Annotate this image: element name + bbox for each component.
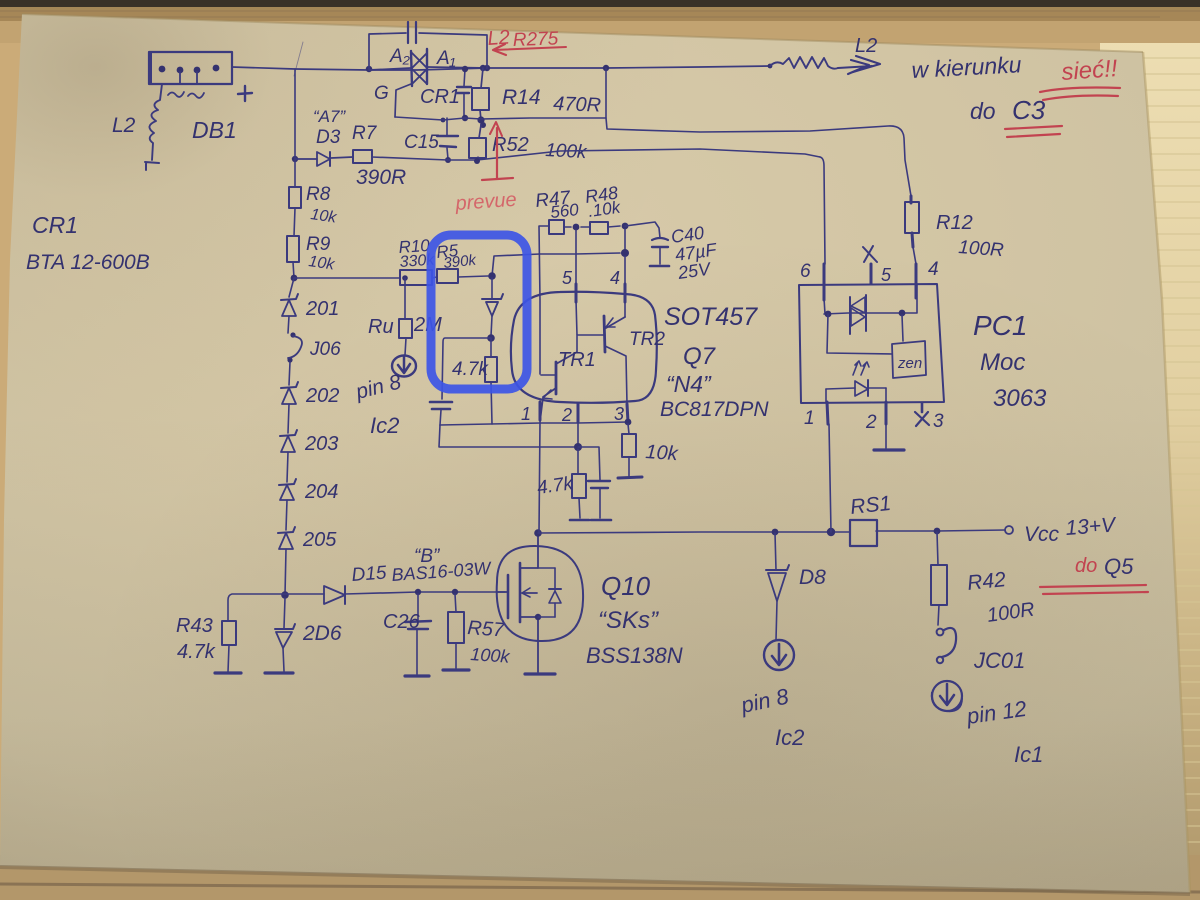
node rail-triac-left — [366, 66, 372, 72]
node R9-R10 — [291, 275, 298, 282]
red underline do Q5 — [1040, 585, 1146, 587]
capacitor C40 — [625, 222, 660, 238]
svg-text:L2: L2 — [112, 114, 136, 137]
svg-text:do: do — [1075, 555, 1097, 577]
svg-text:1: 1 — [521, 404, 531, 424]
svg-text:4.7k: 4.7k — [452, 359, 489, 380]
triac CR1 — [411, 51, 412, 86]
ground R57 — [443, 668, 469, 671]
resistor 4.7k at pin2 — [577, 449, 579, 474]
svg-text:R42: R42 — [966, 568, 1007, 595]
svg-text:3063: 3063 — [993, 385, 1047, 412]
capacitor top (snubber) — [407, 22, 409, 43]
svg-text:PC1: PC1 — [973, 310, 1027, 341]
svg-text:13+V: 13+V — [1065, 513, 1118, 540]
ground PC1 pin2 — [874, 448, 904, 451]
PC1 pin 2 — [885, 388, 887, 403]
transistor pair outline SOT457 Q7 — [511, 292, 657, 403]
red arrow left — [494, 47, 566, 50]
capacitor at pin2 — [578, 447, 600, 480]
svg-text:BTA 12-600B: BTA 12-600B — [26, 251, 150, 274]
svg-text:Ru: Ru — [368, 316, 394, 338]
svg-text:R9: R9 — [306, 234, 331, 255]
svg-text:560: 560 — [549, 200, 580, 222]
svg-text:SOT457: SOT457 — [664, 303, 758, 331]
svg-text:204: 204 — [304, 481, 338, 503]
red mark at R52 — [496, 128, 498, 178]
svg-text:R7: R7 — [352, 123, 378, 144]
ground R43 — [215, 671, 241, 674]
paper lower soft shade — [0, 0, 1, 1]
svg-text:Moc: Moc — [980, 349, 1025, 376]
resistor R10 — [400, 270, 432, 285]
wire R5 to pin4 node — [492, 253, 620, 276]
ground C26 — [405, 674, 429, 677]
node pin2-RC — [574, 443, 582, 451]
arrow to mains — [838, 66, 872, 68]
svg-text:390k: 390k — [443, 252, 479, 272]
wire triac top loop — [369, 33, 406, 69]
wire triac block bottom — [395, 117, 606, 120]
wire to R10 — [294, 277, 400, 279]
wire left vertical — [294, 69, 296, 187]
jumper JC01 — [942, 628, 956, 657]
node R48-C40 — [622, 223, 629, 230]
wire R10 to R5 — [432, 277, 437, 278]
svg-text:JC01: JC01 — [973, 648, 1025, 673]
resistor R5 — [437, 269, 458, 283]
svg-text:“N4”: “N4” — [666, 371, 712, 397]
node pin4 top — [621, 249, 629, 257]
plus sign — [238, 86, 252, 101]
diode in blue box — [491, 278, 493, 298]
node D3 branch — [292, 156, 298, 162]
gate wire of CR1 — [395, 84, 411, 117]
Q10 source — [520, 617, 538, 672]
wire Vcc rail — [538, 532, 850, 533]
resistor 4.7k in blue box — [490, 338, 492, 357]
svg-text:do: do — [970, 98, 996, 124]
PC1 pin 3 (nc) — [921, 403, 924, 412]
resistor R57 — [455, 594, 456, 612]
svg-text:4: 4 — [610, 268, 620, 288]
pin5 wire — [576, 230, 577, 335]
zener diode 2D6 — [284, 598, 285, 628]
svg-text:Vcc: Vcc — [1024, 523, 1060, 546]
node triac left — [825, 311, 832, 318]
capacitor below blue box — [430, 401, 452, 404]
zener diode 201 — [281, 294, 298, 300]
svg-text:Ic1: Ic1 — [1014, 742, 1043, 767]
diode D8 — [775, 533, 776, 570]
diode D3 — [295, 158, 317, 160]
node R5-diode — [488, 272, 496, 280]
inductor L2 (mains) — [149, 84, 162, 160]
Q10 middle stub with arrow — [522, 592, 537, 594]
resistor R42 — [937, 532, 938, 565]
svg-text:4: 4 — [928, 259, 939, 280]
wire chain — [289, 278, 294, 297]
svg-text:“A7”: “A7” — [313, 107, 346, 126]
blue highlight marker box — [431, 235, 527, 389]
ground 10k — [618, 477, 642, 478]
wire PC1 pin1 to rail — [829, 424, 831, 532]
jumper J06 — [290, 332, 295, 337]
svg-text:205: 205 — [302, 529, 337, 551]
resistor Ru — [402, 275, 408, 281]
PC1 pin 5 (nc) — [870, 264, 873, 284]
Q10 drain — [520, 534, 538, 568]
terminal Vcc — [1005, 526, 1013, 534]
node snubber top — [462, 66, 468, 72]
svg-text:2: 2 — [865, 412, 877, 433]
svg-text:C15: C15 — [404, 132, 439, 153]
wire main AC rail — [232, 66, 770, 70]
PC1 LED arrows — [853, 361, 861, 375]
zener diode 202 — [281, 382, 298, 388]
svg-text:C26: C26 — [383, 611, 421, 633]
svg-text:TR2: TR2 — [629, 329, 665, 350]
Q10 body diode — [554, 568, 556, 617]
stray pen scratch — [294, 42, 303, 76]
red underline C3 — [1005, 126, 1062, 129]
node C15 bottom — [445, 157, 451, 163]
resistor RS1 — [850, 520, 877, 546]
pin2 wire — [577, 404, 579, 447]
svg-text:R43: R43 — [176, 615, 213, 637]
wire to PC1 pin 6 — [820, 157, 825, 264]
node pin3-10k — [625, 419, 632, 426]
wire to R43 — [228, 594, 285, 621]
svg-text:100R: 100R — [958, 237, 1005, 261]
node R42 — [934, 528, 941, 535]
svg-text:470R: 470R — [553, 93, 602, 117]
PC1 pin 4 — [915, 264, 918, 298]
PC1 pin 6 — [823, 264, 826, 300]
svg-text:201: 201 — [305, 298, 339, 320]
wire PC1 triac row — [824, 284, 917, 314]
node snubber bottom — [462, 115, 468, 121]
zener diode 204 — [279, 479, 296, 485]
svg-text:D8: D8 — [799, 566, 826, 589]
svg-text:D15: D15 — [351, 563, 388, 586]
node chain-D15 — [281, 591, 289, 599]
svg-text:R14: R14 — [502, 86, 541, 109]
resistor R14 — [480, 65, 486, 71]
svg-text:L2: L2 — [855, 35, 877, 57]
svg-text:R8: R8 — [306, 184, 331, 205]
zener box in PC1 — [892, 341, 926, 378]
red underline siec — [1040, 88, 1120, 93]
transistor TR2 — [604, 316, 605, 352]
svg-text:3: 3 — [614, 404, 624, 424]
svg-text:BSS138N: BSS138N — [586, 643, 683, 668]
svg-text:Q7: Q7 — [683, 343, 717, 370]
svg-text:Q5: Q5 — [1104, 554, 1134, 579]
node triac right — [899, 310, 906, 317]
transistor TR1 — [555, 362, 558, 394]
resistor 10k — [628, 424, 629, 434]
capacitor C15 — [446, 118, 448, 135]
terminal pin8 Ic2 (D8) — [764, 640, 794, 670]
pin4 wire — [624, 256, 626, 317]
node R52 bottom — [474, 158, 480, 164]
resistor R9 — [287, 236, 299, 262]
svg-text:203: 203 — [304, 433, 338, 455]
resistor R43 — [222, 621, 236, 645]
svg-text:“SKs”: “SKs” — [598, 607, 659, 634]
PC1 triac — [849, 297, 851, 334]
wire pin row — [440, 422, 628, 425]
node D8 — [772, 529, 779, 536]
wire R5 right — [458, 276, 488, 277]
Q10 gate wire — [497, 591, 508, 593]
svg-text:zen: zen — [897, 355, 922, 372]
svg-text:D3: D3 — [316, 127, 341, 148]
resistor R47 — [549, 220, 564, 234]
node R14 bottom — [477, 116, 484, 123]
wire R7 to C15/R52 — [372, 149, 820, 160]
svg-text:1: 1 — [804, 408, 815, 429]
svg-text:202: 202 — [305, 385, 339, 407]
svg-text:BC817DPN: BC817DPN — [660, 398, 769, 421]
wire R47 row left corner — [539, 226, 549, 374]
node rail-right — [603, 65, 609, 71]
Q10 channel bar — [519, 563, 522, 622]
node PC1 pin1 rail — [827, 528, 835, 536]
wire pin2 node row — [439, 425, 578, 447]
wire node to left — [442, 338, 491, 399]
node rail-triac-right — [484, 65, 490, 71]
inductor L2 squiggle (to mains) — [768, 64, 773, 69]
resistor R48 — [581, 226, 590, 228]
svg-text:Ic2: Ic2 — [370, 413, 399, 438]
node C26 — [415, 589, 421, 595]
terminal pin8 Ic2 (Ru) — [392, 356, 416, 377]
svg-text:6: 6 — [800, 261, 811, 282]
svg-text:RS1: RS1 — [849, 492, 892, 519]
zener diode 205 — [278, 527, 295, 533]
svg-text:100k: 100k — [470, 644, 511, 667]
svg-text:2D6: 2D6 — [302, 622, 342, 645]
pin1 wire — [539, 398, 543, 533]
svg-text:R57: R57 — [467, 617, 506, 642]
pin3 wire — [627, 404, 628, 422]
svg-text:R12: R12 — [936, 212, 973, 234]
node R47-R48 — [573, 224, 580, 231]
ground Q10 — [525, 672, 555, 675]
svg-text:C3: C3 — [1012, 95, 1046, 125]
PC1 pin 1 — [825, 389, 827, 403]
node R57 — [452, 589, 458, 595]
paper edge shadows — [1143, 52, 1190, 893]
svg-text:CR1: CR1 — [420, 86, 460, 108]
svg-text:2: 2 — [561, 405, 572, 425]
capacitor C26 — [417, 594, 419, 620]
connector DB1 — [149, 52, 232, 84]
svg-text:10k: 10k — [645, 441, 680, 465]
transistor Q10 body — [497, 546, 583, 641]
svg-text:A₁: A₁ — [436, 48, 456, 69]
wire zen branch — [827, 314, 892, 354]
svg-text:prevue: prevue — [454, 189, 518, 215]
wire D15 to gate — [345, 592, 505, 594]
capacitor CR1 snubber right — [464, 69, 465, 86]
svg-text:TR1: TR1 — [558, 349, 596, 371]
zener diode 203 — [280, 430, 297, 436]
diode D15 — [285, 593, 324, 595]
resistor R8 — [289, 187, 301, 208]
svg-text:4.7k: 4.7k — [177, 641, 216, 663]
svg-text:A₂: A₂ — [389, 46, 411, 67]
svg-text:G: G — [374, 83, 389, 104]
resistor R52 — [479, 125, 481, 138]
svg-text:CR1: CR1 — [32, 212, 78, 238]
svg-text:5: 5 — [562, 268, 573, 288]
svg-text:sieć!!: sieć!! — [1061, 55, 1119, 86]
svg-text:J06: J06 — [309, 339, 341, 360]
Q10 gate bar — [507, 575, 510, 618]
resistor R7 — [353, 150, 372, 163]
svg-text:Q10: Q10 — [601, 571, 651, 601]
wire R48 to node — [608, 226, 620, 227]
ground 2D6 — [265, 671, 293, 674]
svg-text:5: 5 — [881, 265, 892, 285]
terminal pin12 Ic1 — [932, 681, 962, 711]
svg-text:3: 3 — [933, 411, 944, 432]
node Q10 drain rail — [534, 529, 542, 537]
optocoupler PC1 box — [799, 284, 944, 403]
svg-text:Ic2: Ic2 — [775, 725, 804, 750]
wire rail to R12 branch — [606, 68, 911, 196]
resistor R12 — [910, 196, 913, 203]
wire node down — [624, 229, 626, 250]
svg-text:DB1: DB1 — [192, 117, 237, 143]
node diode-4.7k — [487, 334, 495, 342]
svg-text:390R: 390R — [356, 166, 406, 189]
node small gate wire — [441, 118, 446, 123]
PC1 LED — [826, 388, 855, 389]
svg-text:“B”: “B” — [414, 546, 441, 567]
